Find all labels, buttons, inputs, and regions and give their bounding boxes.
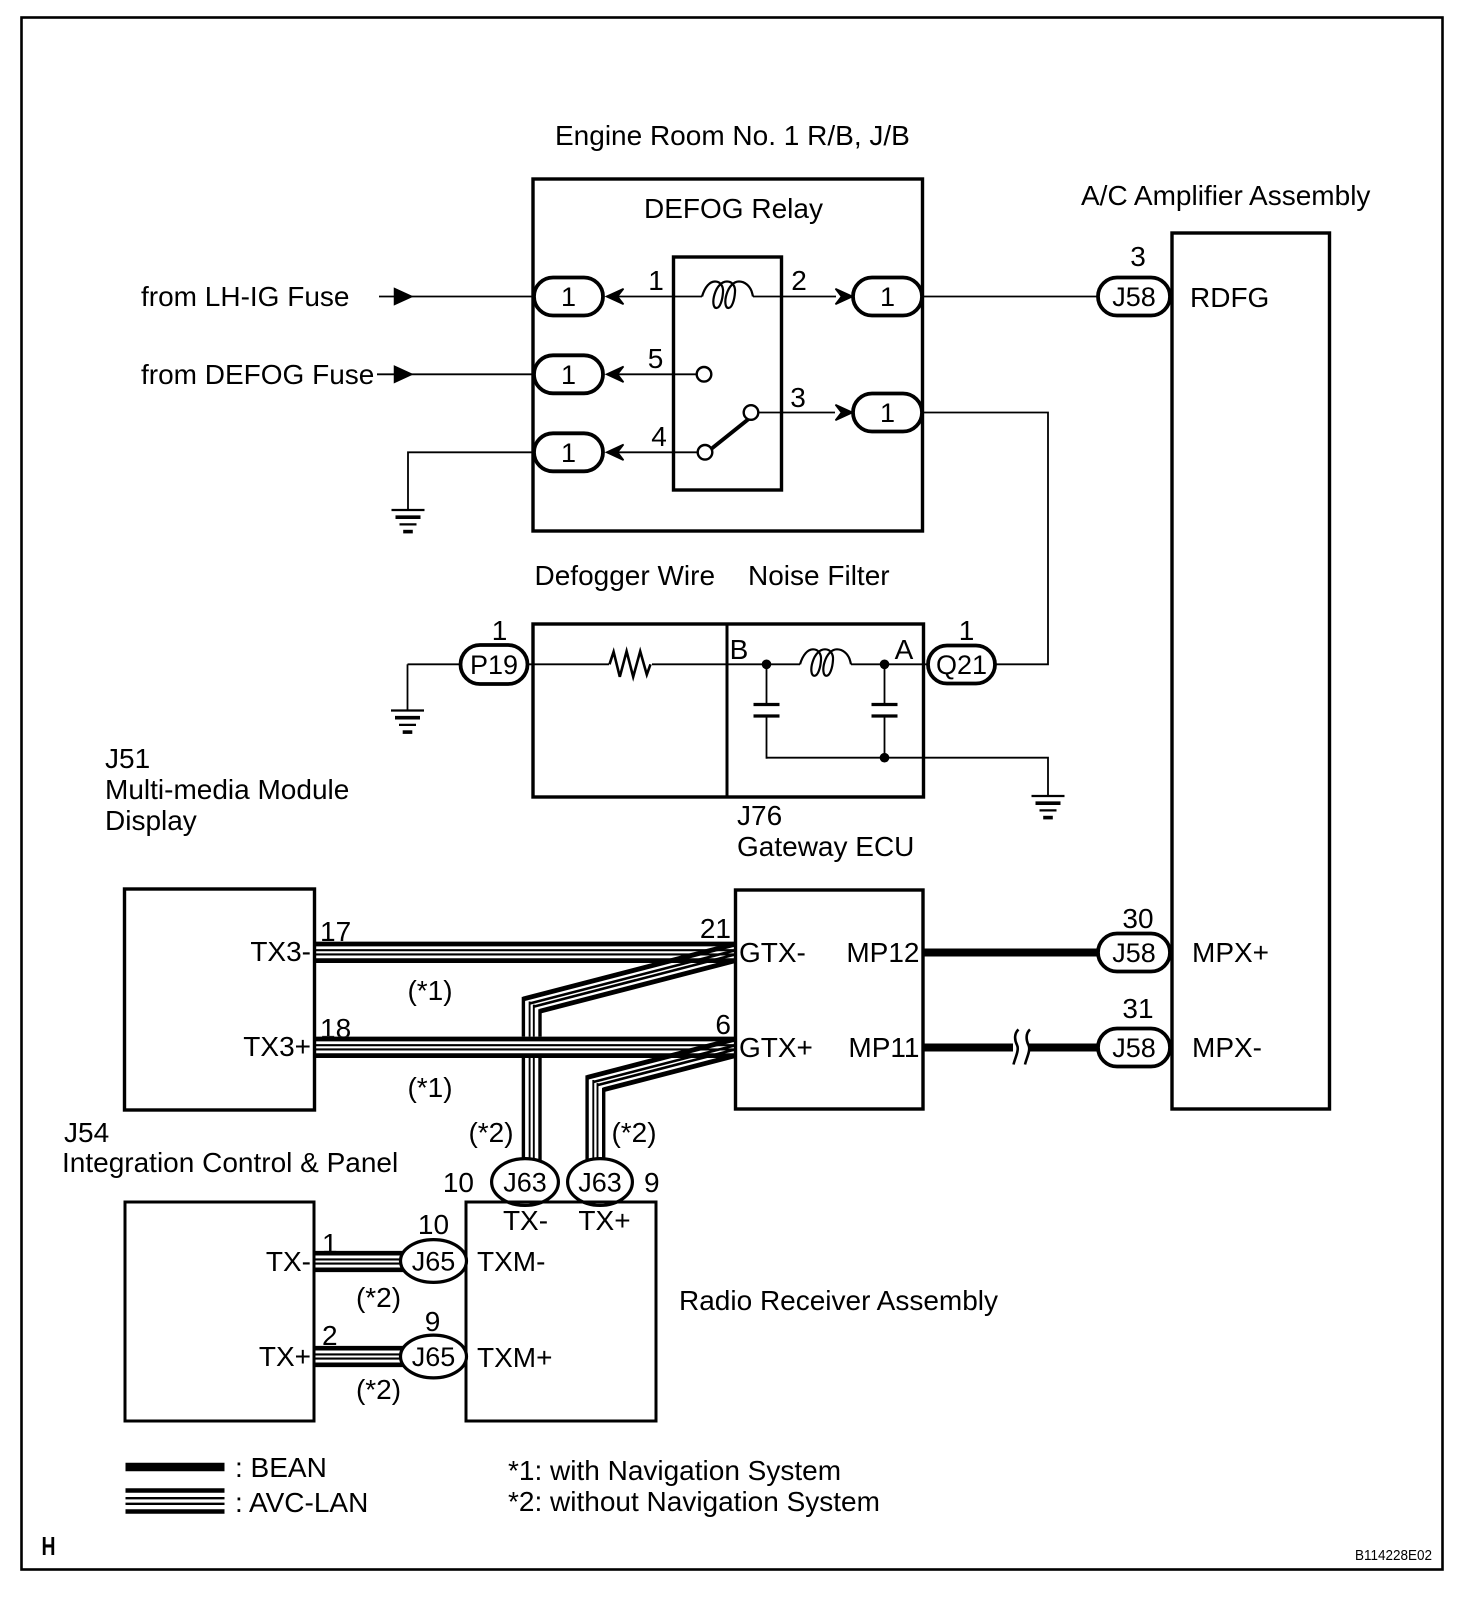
relay DEFOG Relay inner box — [674, 257, 782, 490]
svg-text:Noise Filter: Noise Filter — [748, 560, 890, 591]
svg-text:A: A — [895, 634, 914, 665]
svg-text:6: 6 — [715, 1009, 731, 1040]
connector J63 (pin 9) — [568, 1159, 633, 1206]
svg-text:Integration Control & Panel: Integration Control & Panel — [62, 1147, 398, 1178]
svg-text:MP11: MP11 — [848, 1032, 919, 1063]
svg-text:Engine Room No. 1 R/B, J/B: Engine Room No. 1 R/B, J/B — [555, 120, 910, 151]
wire relay pin3 to Q21 — [922, 413, 1048, 665]
wire AVC-LAN TX- to J65 — [314, 1253, 405, 1270]
svg-text:(*2): (*2) — [468, 1117, 513, 1148]
svg-text:TX+: TX+ — [578, 1205, 630, 1236]
legend AVC-LAN lines — [126, 1491, 225, 1512]
svg-text:2: 2 — [791, 265, 807, 296]
wire resistor to noise filter coil — [652, 663, 800, 665]
capacitor C2 (node A) — [872, 664, 898, 758]
wire AVC-LAN GTX+ to J63 (branch) — [587, 1039, 735, 1162]
svg-text:DEFOG Relay: DEFOG Relay — [644, 193, 823, 224]
connector J58 (MPX+) — [1098, 934, 1170, 972]
wire pin1 to coil — [618, 296, 702, 298]
legend BEAN line — [126, 1463, 225, 1472]
svg-text:1: 1 — [561, 282, 576, 312]
svg-text:from DEFOG Fuse: from DEFOG Fuse — [141, 359, 374, 390]
wire from DEFOG fuse — [377, 373, 534, 375]
svg-text:MPX-: MPX- — [1192, 1032, 1262, 1063]
arrowhead pin 4 — [607, 445, 624, 461]
svg-text:P19: P19 — [470, 650, 518, 680]
ground (relay) — [392, 510, 425, 532]
wire relay pin4 to ground — [408, 452, 534, 510]
wire P19 to ground drop — [407, 664, 409, 710]
wire coil to Q21 — [851, 663, 929, 665]
arrow from DEFOG fuse — [395, 366, 413, 382]
wire AVC-LAN GTX- to J63 (branch) — [523, 944, 735, 1162]
svg-text:J58: J58 — [1112, 1033, 1156, 1063]
svg-text:5: 5 — [648, 343, 664, 374]
svg-text:1: 1 — [492, 615, 508, 646]
resistor defogger wire — [610, 651, 651, 677]
relay switch contact pin 3 — [744, 405, 759, 420]
svg-text:1: 1 — [561, 360, 576, 390]
connector J58 (RDFG) — [1098, 278, 1170, 316]
ground (defogger wire) — [391, 711, 424, 733]
wire from LH-IG fuse — [379, 296, 534, 298]
connector oval 1 (to RDFG) — [853, 278, 922, 316]
svg-text:(*2): (*2) — [611, 1117, 656, 1148]
svg-text:RDFG: RDFG — [1190, 282, 1269, 313]
wire pin4 to contact — [618, 451, 698, 453]
svg-text:1: 1 — [561, 438, 576, 468]
svg-text:31: 31 — [1122, 993, 1153, 1024]
wire relay to J58 RDFG — [922, 296, 1099, 298]
arrowhead pin 2 — [836, 289, 853, 305]
connector oval 1 (LH-IG input) — [534, 278, 603, 316]
svg-text:TX3-: TX3- — [250, 936, 311, 967]
svg-text:J58: J58 — [1112, 938, 1156, 968]
svg-text:10: 10 — [443, 1167, 474, 1198]
svg-text:10: 10 — [418, 1209, 449, 1240]
connector oval 1 (ground) — [534, 433, 603, 471]
relay switch blade — [703, 412, 758, 456]
svg-text:GTX-: GTX- — [739, 937, 806, 968]
svg-text:30: 30 — [1122, 903, 1153, 934]
junction capacitor C2 to ground wire — [880, 753, 890, 763]
svg-text:TXM+: TXM+ — [477, 1342, 552, 1373]
svg-text:(*1): (*1) — [407, 975, 452, 1006]
arrow from LH-IG fuse — [395, 289, 413, 305]
svg-text:9: 9 — [425, 1306, 441, 1337]
wire capacitors to ground — [767, 758, 1049, 796]
connector P19 — [461, 645, 528, 684]
connector J65 (pin 9) — [401, 1335, 467, 1378]
svg-text:9: 9 — [644, 1167, 660, 1198]
svg-text:4: 4 — [651, 421, 667, 452]
wire AVC-LAN TX+ to J65 — [314, 1348, 405, 1365]
connector Q21 — [928, 646, 995, 684]
wire BEAN MP12 to J58 — [923, 949, 1099, 957]
divider defogger/noise filter — [726, 624, 729, 797]
noise filter coil — [800, 649, 851, 676]
wire pin5 to contact — [618, 373, 697, 375]
svg-text:A/C Amplifier Assembly: A/C Amplifier Assembly — [1081, 180, 1370, 211]
svg-text:21: 21 — [700, 913, 731, 944]
svg-text:: BEAN: : BEAN — [235, 1452, 327, 1483]
svg-text:*2: without Navigation System: *2: without Navigation System — [508, 1486, 880, 1517]
connector oval 1 (DEFOG input) — [534, 355, 603, 393]
block A/C Amplifier Assembly — [1172, 233, 1330, 1109]
svg-text:J76: J76 — [737, 800, 782, 831]
block Radio Receiver Assembly — [466, 1202, 656, 1421]
relay switch contact pin 4 — [698, 445, 713, 460]
svg-text:TX-: TX- — [503, 1205, 548, 1236]
svg-text:from LH-IG Fuse: from LH-IG Fuse — [141, 281, 349, 312]
svg-text:H: H — [42, 1533, 56, 1561]
svg-text:Gateway ECU: Gateway ECU — [737, 831, 914, 862]
svg-text:TX+: TX+ — [259, 1341, 311, 1372]
svg-text:3: 3 — [790, 382, 806, 413]
svg-text:1: 1 — [959, 615, 975, 646]
connector J63 (pin 10) — [492, 1159, 559, 1206]
wire AVC-LAN TX3+ to GTX+ — [315, 1039, 736, 1056]
svg-text:MPX+: MPX+ — [1192, 937, 1269, 968]
arrowhead pin 1 — [607, 289, 624, 305]
block J54 Integration Control &amp; Panel — [125, 889, 315, 1110]
svg-text:Defogger Wire: Defogger Wire — [535, 560, 716, 591]
svg-text:1: 1 — [880, 282, 895, 312]
svg-text:(*2): (*2) — [356, 1282, 401, 1313]
svg-text:3: 3 — [1130, 241, 1146, 272]
svg-text:J51: J51 — [105, 743, 150, 774]
block Defogger Wire / Noise Filter — [533, 624, 924, 797]
svg-text:Multi-media Module: Multi-media Module — [105, 774, 349, 805]
connector oval 1 (to noise filter) — [853, 394, 922, 432]
svg-text:B: B — [730, 634, 749, 665]
svg-text:J58: J58 — [1112, 282, 1156, 312]
svg-text:1: 1 — [648, 265, 664, 296]
svg-text:(*2): (*2) — [356, 1374, 401, 1405]
arrowhead pin 5 — [607, 367, 624, 383]
block Engine Room No.1 R/B J/B (DEFOG relay block) — [533, 179, 923, 531]
svg-text:MP12: MP12 — [846, 937, 919, 968]
wire ground to P19 — [408, 663, 462, 665]
capacitor C1 (node B) — [754, 664, 780, 758]
svg-text:Q21: Q21 — [936, 650, 987, 680]
junction node B — [762, 660, 772, 670]
svg-text:TX-: TX- — [266, 1246, 311, 1277]
svg-text:J65: J65 — [412, 1342, 456, 1372]
svg-text:J54: J54 — [64, 1117, 109, 1148]
ground (noise filter) — [1032, 796, 1065, 818]
block Gateway ECU (J76) — [736, 890, 924, 1109]
svg-text:TXM-: TXM- — [477, 1246, 545, 1277]
wire P19 to resistor — [527, 663, 609, 665]
arrowhead pin 3 — [836, 405, 853, 421]
svg-text:: AVC-LAN: : AVC-LAN — [235, 1487, 368, 1518]
wire AVC-LAN TX3- to GTX- — [315, 944, 736, 961]
svg-text:Radio Receiver Assembly: Radio Receiver Assembly — [679, 1285, 998, 1316]
wire coil to pin2 — [753, 296, 836, 298]
wire contact to pin3 — [759, 412, 836, 414]
svg-text:TX3+: TX3+ — [243, 1031, 311, 1062]
wire BEAN MP11 to J58 — [923, 1044, 1099, 1052]
connector J65 (pin 10) — [401, 1240, 467, 1283]
relay coil — [702, 282, 753, 309]
svg-text:Display: Display — [105, 805, 197, 836]
relay switch contact pin 5 — [697, 367, 712, 382]
label J51 Multi-media Module Display — [105, 743, 349, 836]
svg-text:J63: J63 — [503, 1168, 547, 1198]
svg-text:J65: J65 — [412, 1247, 456, 1277]
svg-text:B114228E02: B114228E02 — [1355, 1548, 1432, 1564]
connector J58 (MPX-) — [1098, 1029, 1170, 1067]
wire break symbol — [1013, 1030, 1030, 1065]
svg-text:(*1): (*1) — [407, 1072, 452, 1103]
svg-text:1: 1 — [880, 398, 895, 428]
svg-text:J63: J63 — [578, 1168, 622, 1198]
block multi-media module display (lower left) — [125, 1202, 314, 1421]
svg-text:GTX+: GTX+ — [739, 1032, 813, 1063]
svg-text:*1: with Navigation System: *1: with Navigation System — [508, 1455, 841, 1486]
junction node A — [880, 660, 890, 670]
